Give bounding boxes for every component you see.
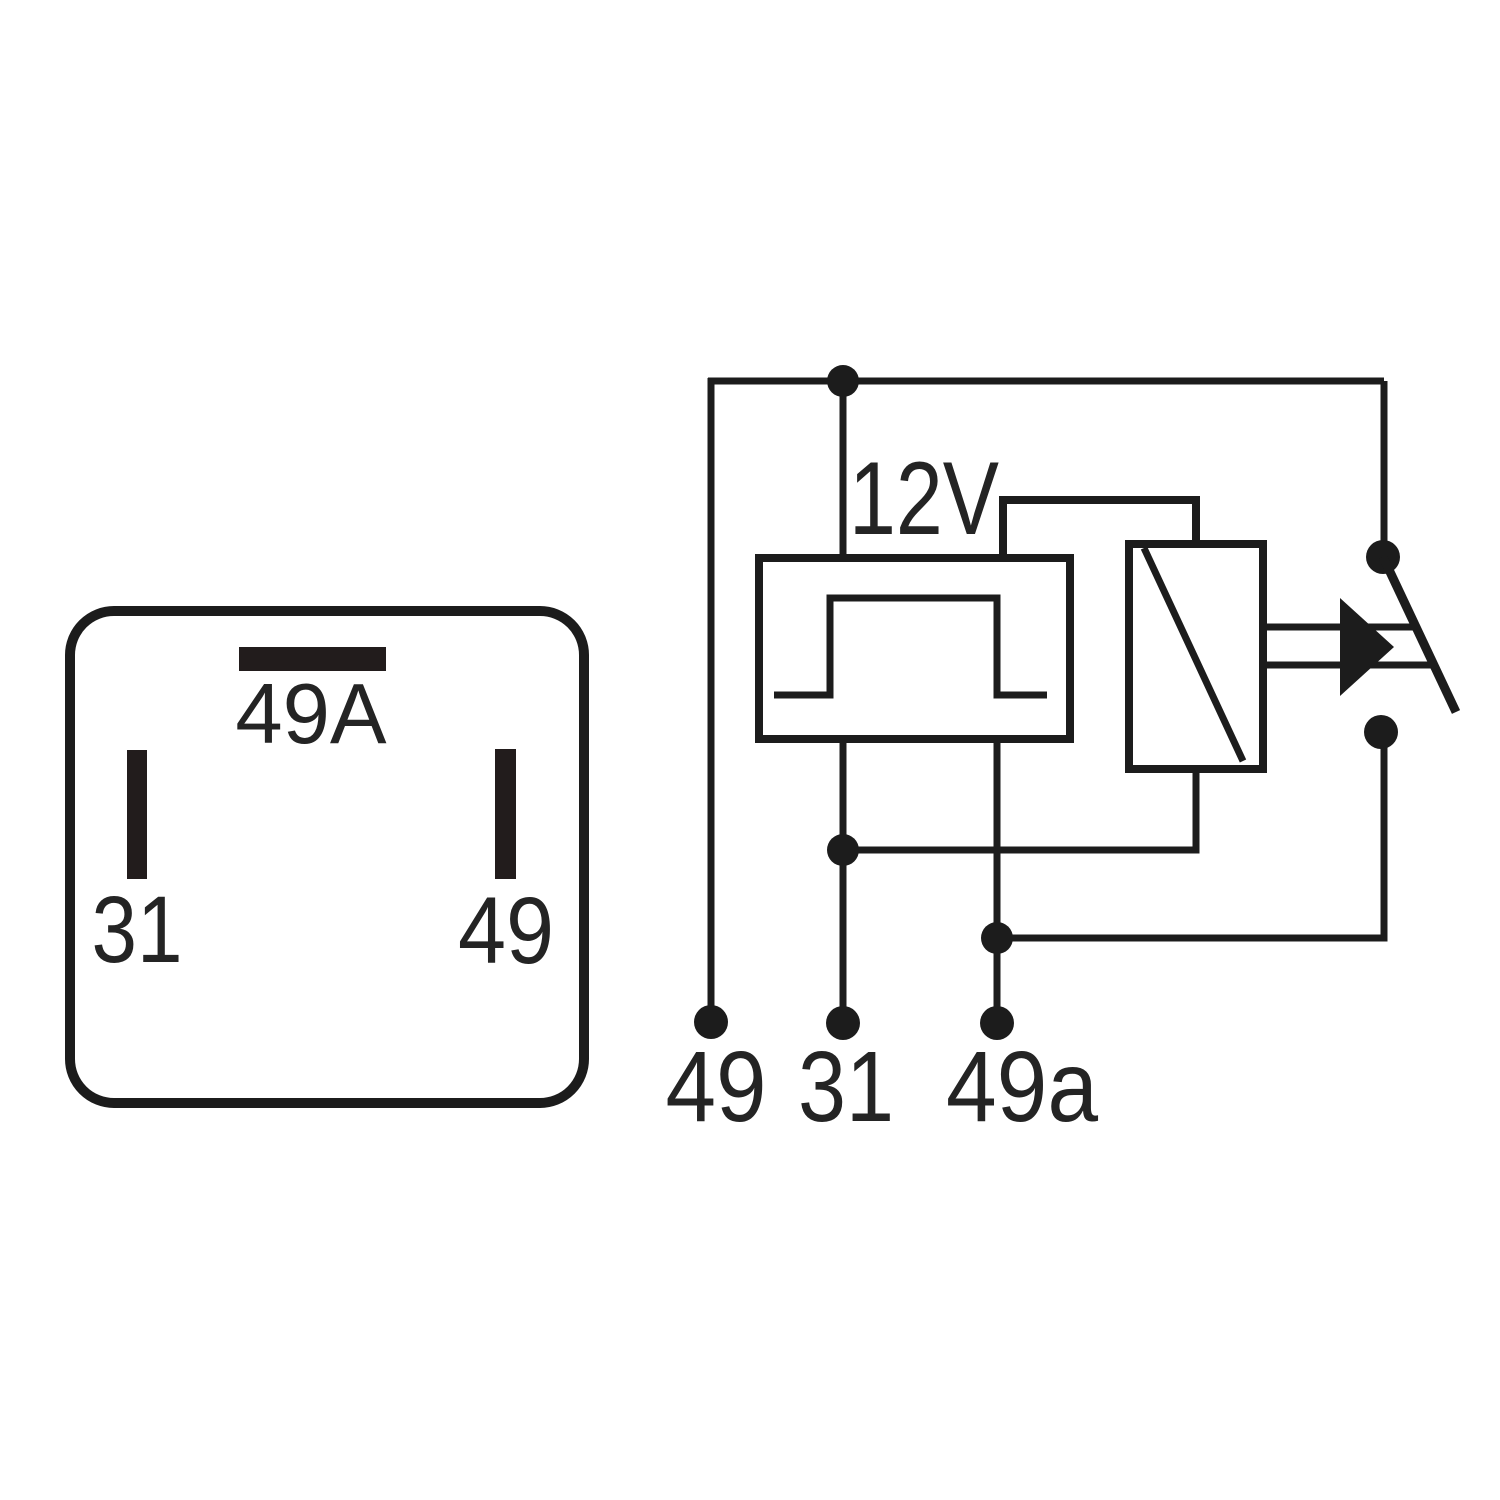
svg-text:49: 49 xyxy=(458,878,554,984)
relay coil diagonal xyxy=(1144,548,1243,761)
terminal dot 49 xyxy=(694,1005,728,1039)
terminal blade 31 xyxy=(127,750,147,879)
node: top junction xyxy=(827,365,859,397)
wire: junction 49a to switch lower contact xyxy=(997,741,1384,938)
wire: junction to flasher box top xyxy=(840,381,847,558)
terminal dot 49a xyxy=(980,1006,1014,1040)
switch lower contact xyxy=(1364,715,1398,749)
terminal blade 49A (top bar) xyxy=(239,647,386,671)
wire: top bus to switch upper contact xyxy=(1381,381,1388,550)
svg-text:49a: 49a xyxy=(946,1031,1098,1143)
wire: flasher box to terminal 49a xyxy=(994,739,1001,1023)
wire: flasher box to terminal 31 xyxy=(840,739,847,1023)
actuator link upper xyxy=(1263,624,1414,631)
wire: junction 31 to coil bottom xyxy=(843,769,1196,850)
node: junction 31 xyxy=(827,834,859,866)
svg-text:49A: 49A xyxy=(235,667,387,762)
terminal blade 49 xyxy=(495,749,516,879)
svg-text:31: 31 xyxy=(798,1031,894,1143)
actuator arrow xyxy=(1340,598,1394,696)
wire: flasher box to coil top link xyxy=(1003,500,1196,558)
wire: left drop to terminal 49 xyxy=(708,378,715,1022)
actuator link lower xyxy=(1263,662,1431,669)
relay housing outline xyxy=(70,611,584,1103)
terminal dot 31 xyxy=(826,1006,860,1040)
node: junction 49a xyxy=(981,922,1013,954)
switch upper contact xyxy=(1366,540,1400,574)
svg-text:12V: 12V xyxy=(849,441,999,557)
svg-text:49: 49 xyxy=(666,1031,767,1143)
flasher unit U1 box xyxy=(759,558,1070,739)
wire: top bus xyxy=(708,378,1384,385)
switch blade xyxy=(1383,557,1456,712)
svg-text:31: 31 xyxy=(92,877,183,983)
relay coil K1 box xyxy=(1129,544,1263,769)
square-wave pulse symbol xyxy=(774,598,1047,695)
